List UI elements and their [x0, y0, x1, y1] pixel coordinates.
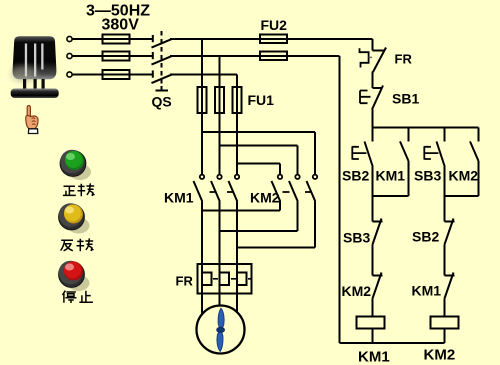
- wire to KM2 coil: [444, 299, 446, 317]
- motor propeller: [217, 308, 225, 351]
- svg-text:KM2: KM2: [449, 168, 479, 184]
- wire SB3 to KM2 NC: [372, 245, 374, 276]
- wire KM2 pole2 return: [220, 230, 298, 232]
- contactor KM2 pole 3: [307, 175, 318, 248]
- wire to KM1 coil: [372, 299, 374, 317]
- terminal L1: [67, 36, 72, 41]
- button green (forward): [60, 150, 91, 180]
- contact KM1 aux (NO): [400, 141, 409, 166]
- svg-text:FR: FR: [176, 274, 194, 289]
- switch QS pole 2: [152, 52, 173, 65]
- wire crossover C to KM2 pole1: [237, 164, 280, 175]
- branch lowers to merge: [373, 167, 479, 197]
- thermal relay FR box: [198, 264, 252, 294]
- contact KM1 NC interlock: [445, 273, 455, 299]
- KM2 linkage dashed: [283, 191, 313, 193]
- pushbutton SB2 (NO): [352, 142, 372, 167]
- svg-text:FU1: FU1: [248, 92, 275, 108]
- wire crossover B to KM2 pole2: [220, 146, 298, 175]
- control bus: [373, 127, 479, 129]
- contactor KM1 pole 1: [194, 175, 205, 264]
- fuse FU1 c: [233, 87, 242, 113]
- wire phase B after QS: [170, 55, 340, 57]
- wire KM2 pole1 return: [202, 210, 280, 212]
- wire drop phase A to FU1: [201, 39, 203, 87]
- fuse FU1 a: [198, 87, 207, 113]
- fuse L1: [103, 35, 130, 44]
- label zhengzhuan (forward): [63, 183, 95, 196]
- svg-text:FR: FR: [395, 52, 413, 67]
- svg-text:QS: QS: [152, 94, 172, 110]
- pushbutton SB2 NC interlock: [445, 219, 455, 245]
- svg-text:KM1: KM1: [376, 168, 406, 184]
- hand pointer: [26, 106, 38, 134]
- branch drops: [373, 128, 479, 142]
- wire FR to SB1: [372, 72, 374, 89]
- FR heater linkage dashed: [213, 278, 251, 280]
- wire to SB2 NC: [444, 196, 446, 222]
- svg-text:SB3: SB3: [343, 230, 370, 246]
- fuse FU2 a: [260, 35, 287, 44]
- terminal L2: [67, 53, 72, 58]
- switch QS pole 3: [152, 71, 173, 84]
- label fanzhuan (reverse): [61, 238, 94, 251]
- svg-text:KM1: KM1: [412, 283, 442, 299]
- switch QS pole 1: [152, 35, 173, 48]
- FR heater 2: [220, 264, 230, 294]
- merge bar left pair: [373, 195, 409, 197]
- svg-text:SB2: SB2: [342, 168, 369, 184]
- fuse L3: [103, 70, 130, 79]
- wire to SB3 NC: [372, 196, 374, 222]
- svg-text:KM1: KM1: [358, 349, 390, 365]
- wire SB1 to bus: [372, 110, 374, 128]
- FR heater 3: [237, 264, 247, 294]
- fuse L2: [103, 52, 130, 61]
- svg-text:SB2: SB2: [412, 229, 439, 245]
- bottom bus: [340, 342, 445, 344]
- contactor KM1 pole 3: [229, 175, 240, 264]
- svg-text:KM2: KM2: [424, 347, 456, 364]
- contact KM2 aux (NO): [470, 141, 479, 166]
- svg-text:KM2: KM2: [342, 283, 372, 299]
- merge bar right pair: [445, 195, 479, 197]
- pushbutton SB1 (NC): [360, 86, 383, 110]
- wire L2: [72, 55, 153, 57]
- wires FR to motor: [202, 294, 237, 315]
- wire coil KM2 to bus: [444, 329, 446, 344]
- KM1 linkage dashed: [210, 191, 235, 193]
- FR heater 1: [202, 264, 212, 294]
- wire L3: [72, 74, 153, 76]
- button yellow (reverse): [59, 203, 90, 233]
- button red (stop): [59, 261, 90, 291]
- wire phase A after QS: [170, 38, 373, 40]
- fuse FU1 b: [215, 87, 224, 113]
- coil KM2: [431, 317, 459, 329]
- wire KM2 pole3 return: [237, 247, 315, 249]
- pushbutton SB3 (NO): [424, 142, 444, 167]
- wire phase C after QS: [170, 74, 237, 76]
- label tingzhi (stop): [62, 291, 93, 303]
- source icon (3-phase supply): [11, 36, 59, 98]
- contactor KM1 pole 2: [211, 175, 222, 264]
- wire crossover A to KM2 pole3: [202, 132, 315, 174]
- wire L1: [72, 38, 153, 40]
- terminal L3: [67, 72, 72, 77]
- relay contact FR (NC): [360, 48, 387, 73]
- svg-text:KM1: KM1: [164, 190, 194, 206]
- contactor KM2 pole 2: [289, 175, 300, 231]
- wire FU1 to KM1 contacts: [202, 113, 237, 174]
- coil KM1: [357, 317, 385, 329]
- svg-text:SB3: SB3: [414, 168, 441, 184]
- wire coil KM1 to bus: [372, 329, 374, 344]
- QS linkage dashed: [156, 31, 169, 91]
- wire drop phase C to FU1: [236, 75, 238, 88]
- wire phase B drop: [339, 56, 341, 343]
- svg-text:KM2: KM2: [250, 190, 280, 206]
- wire drop phase B to FU1: [219, 56, 221, 87]
- svg-text:380V: 380V: [102, 17, 140, 34]
- fuse FU2 b: [260, 52, 287, 61]
- contact KM2 NC interlock: [373, 273, 383, 299]
- svg-text:SB1: SB1: [392, 91, 419, 107]
- svg-text:FU2: FU2: [261, 17, 288, 33]
- contactor KM2 pole 1: [272, 175, 283, 211]
- motor circle: [197, 306, 245, 354]
- pushbutton SB3 NC interlock: [373, 219, 383, 245]
- wire SB2 to KM1 NC: [444, 245, 446, 276]
- wire phase A down to FR contact: [372, 39, 374, 51]
